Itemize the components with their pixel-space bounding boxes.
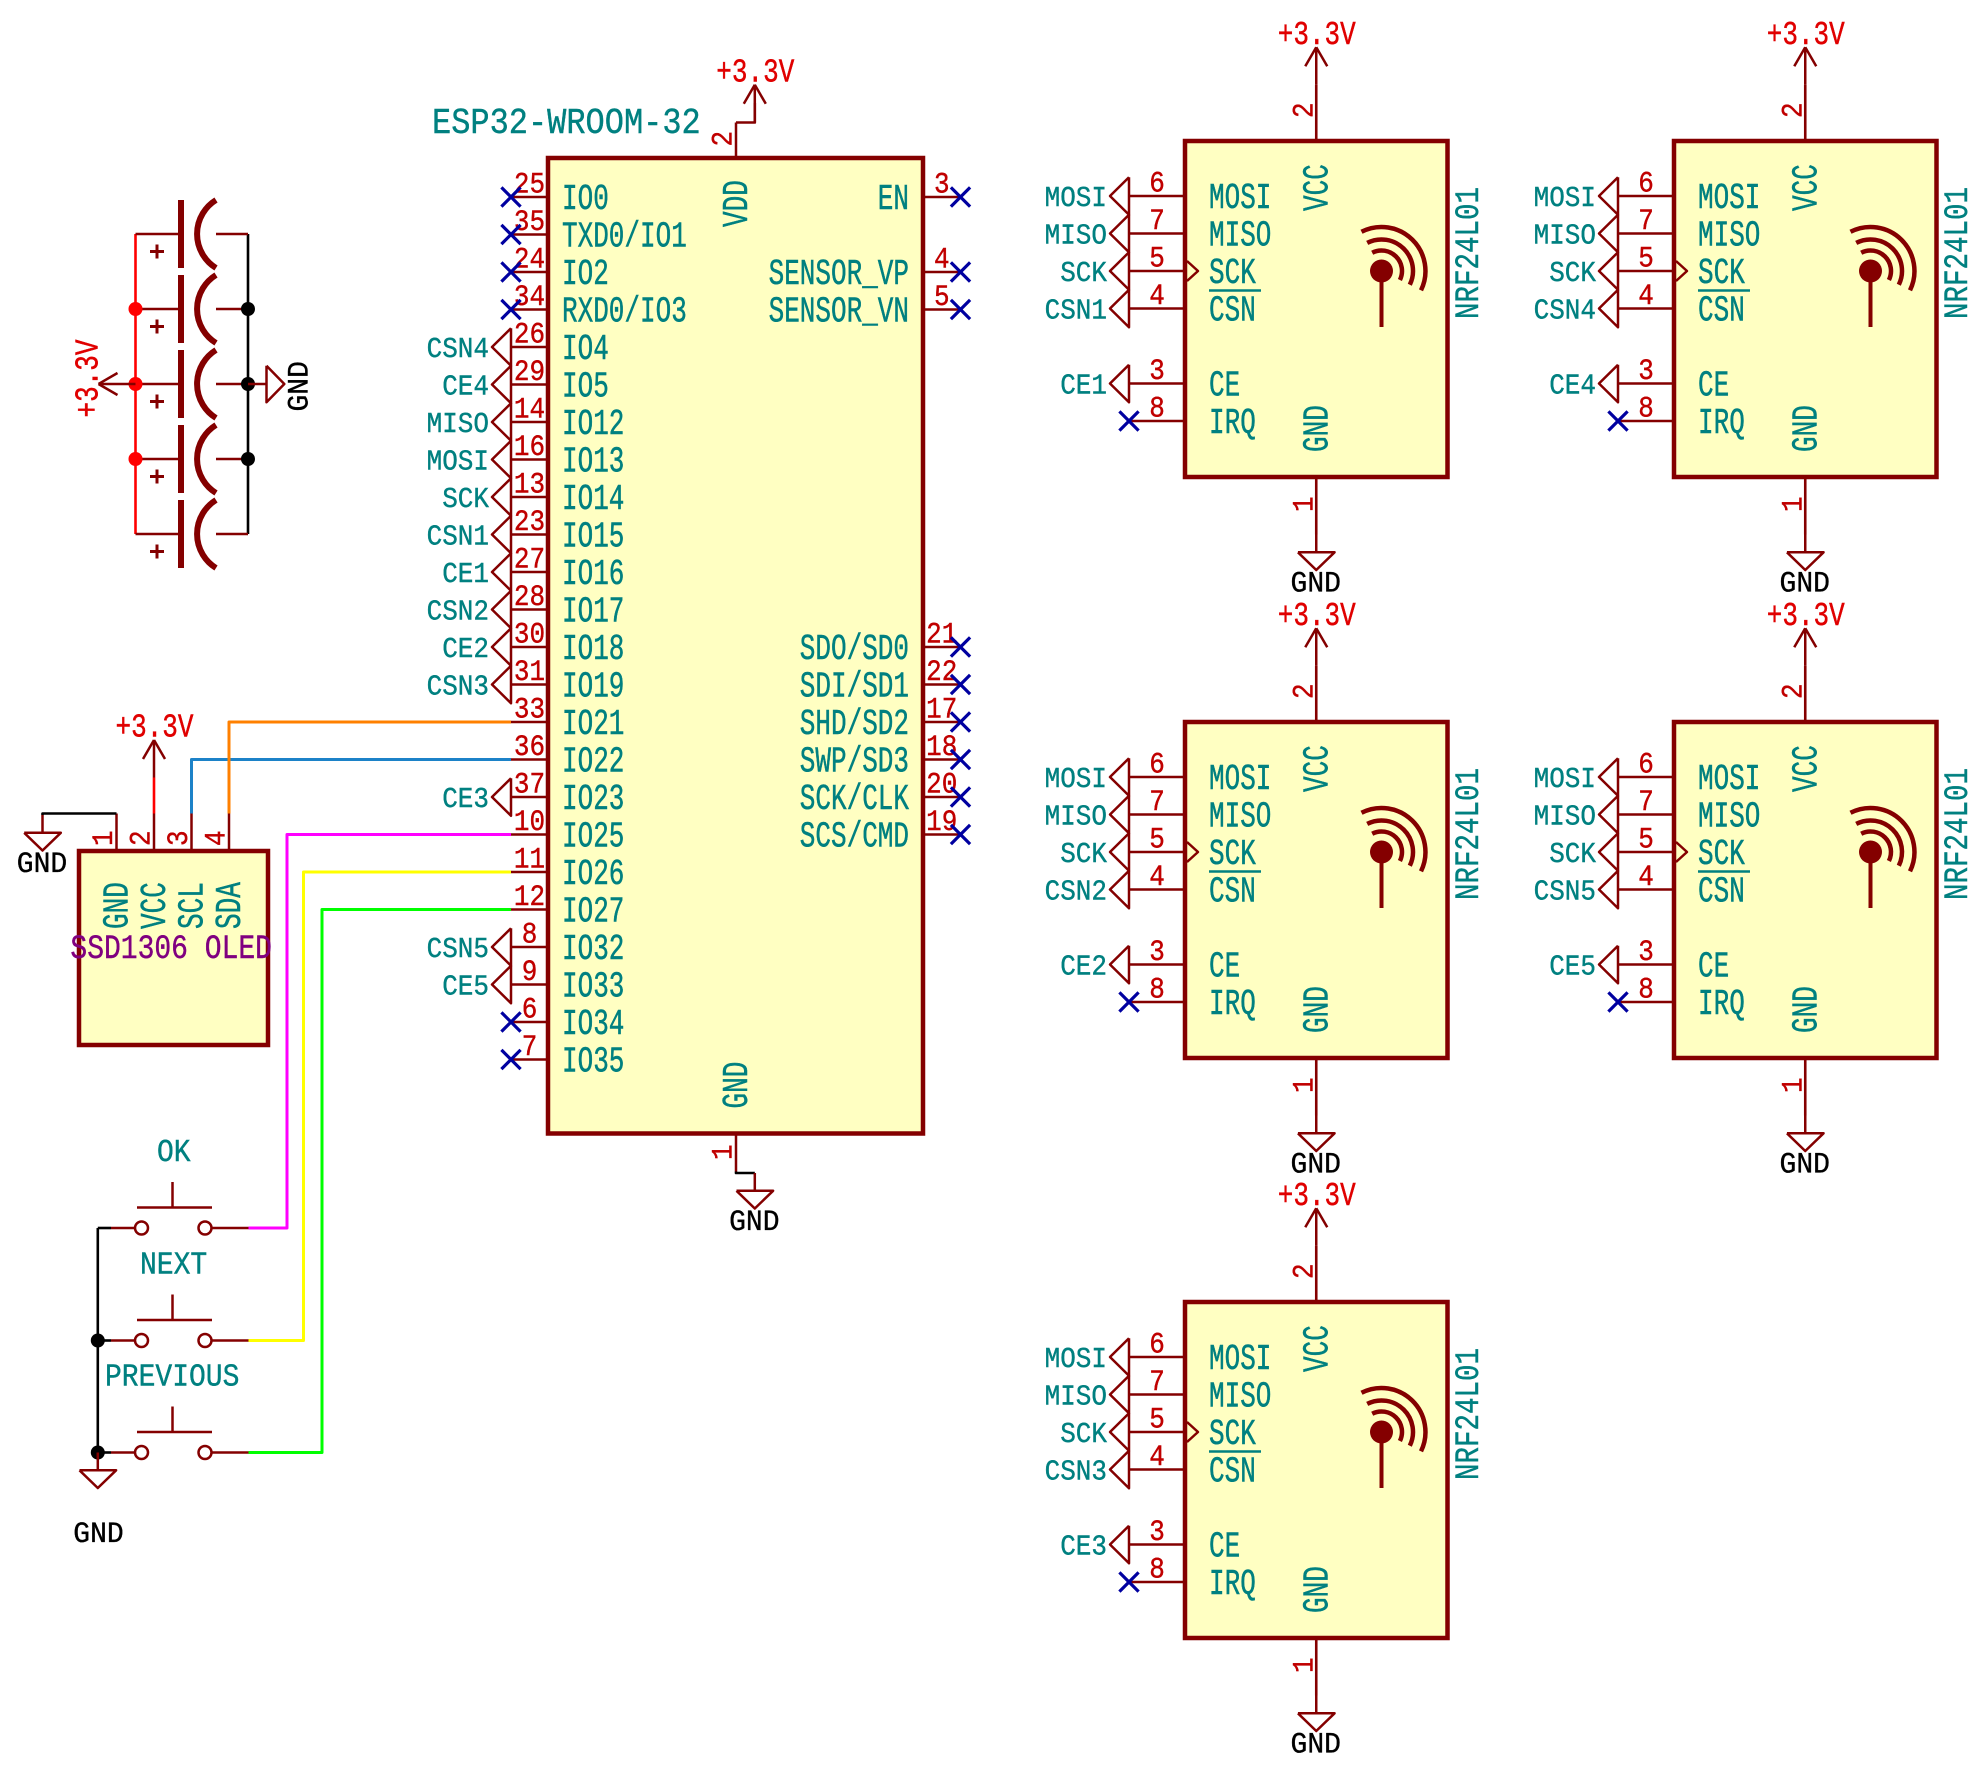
svg-text:IRQ: IRQ (1209, 985, 1256, 1025)
svg-text:MISO: MISO (427, 409, 489, 442)
svg-text:CSN: CSN (1209, 292, 1256, 332)
svg-text:GND: GND (99, 882, 139, 929)
svg-text:CE5: CE5 (442, 971, 489, 1004)
svg-text:29: 29 (514, 357, 545, 390)
svg-text:CSN3: CSN3 (1045, 1456, 1107, 1489)
svg-text:IO16: IO16 (562, 555, 624, 595)
svg-text:GND: GND (729, 1205, 779, 1239)
svg-text:33: 33 (514, 694, 545, 727)
svg-text:SCK: SCK (1698, 254, 1745, 294)
svg-text:SCK/CLK: SCK/CLK (800, 780, 909, 820)
svg-text:SENSOR_VN: SENSOR_VN (769, 293, 909, 333)
svg-text:14: 14 (514, 394, 545, 427)
svg-text:11: 11 (514, 844, 545, 877)
svg-text:7: 7 (1638, 206, 1654, 239)
svg-text:3: 3 (1149, 356, 1165, 389)
svg-text:GND: GND (1299, 986, 1339, 1033)
svg-text:CE5: CE5 (1549, 951, 1596, 984)
svg-text:2: 2 (1289, 1263, 1322, 1279)
svg-text:IO19: IO19 (562, 668, 624, 708)
svg-text:RXD0/IO3: RXD0/IO3 (562, 293, 687, 333)
svg-text:MOSI: MOSI (1534, 183, 1596, 216)
svg-text:27: 27 (514, 544, 545, 577)
svg-text:IO15: IO15 (562, 518, 624, 558)
svg-text:CE1: CE1 (1060, 370, 1107, 403)
svg-text:NEXT: NEXT (140, 1247, 207, 1283)
svg-text:26: 26 (514, 319, 545, 352)
svg-text:8: 8 (1149, 393, 1165, 426)
svg-text:+3.3V: +3.3V (116, 710, 194, 748)
svg-text:GND: GND (1291, 567, 1341, 601)
svg-text:CSN3: CSN3 (427, 671, 489, 704)
svg-text:IO12: IO12 (562, 405, 624, 445)
svg-text:SDO/SD0: SDO/SD0 (800, 630, 909, 670)
svg-text:VCC: VCC (1788, 164, 1828, 211)
svg-text:MOSI: MOSI (1045, 764, 1107, 797)
svg-text:IO33: IO33 (562, 968, 624, 1008)
svg-text:4: 4 (1638, 281, 1654, 314)
svg-text:IO18: IO18 (562, 630, 624, 670)
svg-text:MOSI: MOSI (1209, 179, 1271, 219)
svg-text:EN: EN (878, 180, 909, 220)
svg-text:CE: CE (1698, 948, 1729, 988)
svg-text:+3.3V: +3.3V (716, 54, 794, 92)
svg-text:7: 7 (522, 1032, 538, 1065)
svg-text:NRF24L01: NRF24L01 (1450, 187, 1489, 319)
svg-text:10: 10 (514, 807, 545, 840)
svg-text:8: 8 (1149, 974, 1165, 1007)
svg-text:CSN: CSN (1209, 873, 1256, 913)
svg-text:SENSOR_VP: SENSOR_VP (769, 255, 909, 295)
svg-text:13: 13 (514, 469, 545, 502)
svg-text:6: 6 (1149, 749, 1165, 782)
svg-text:MISO: MISO (1045, 801, 1107, 834)
svg-text:IRQ: IRQ (1698, 985, 1745, 1025)
svg-text:5: 5 (1638, 824, 1654, 857)
svg-text:23: 23 (514, 507, 545, 540)
svg-text:28: 28 (514, 582, 545, 615)
svg-text:8: 8 (1638, 974, 1654, 1007)
svg-text:GND: GND (1780, 1148, 1830, 1182)
svg-text:5: 5 (1149, 243, 1165, 276)
svg-text:CSN: CSN (1209, 1453, 1256, 1493)
svg-text:IO21: IO21 (562, 705, 624, 745)
svg-text:CSN: CSN (1698, 873, 1745, 913)
svg-text:CSN5: CSN5 (427, 934, 489, 967)
svg-text:IO35: IO35 (562, 1043, 624, 1083)
svg-text:PREVIOUS: PREVIOUS (105, 1359, 239, 1395)
svg-text:SHD/SD2: SHD/SD2 (800, 705, 909, 745)
svg-text:36: 36 (514, 732, 545, 765)
svg-text:8: 8 (1638, 393, 1654, 426)
svg-text:CE4: CE4 (1549, 370, 1596, 403)
svg-text:MISO: MISO (1045, 220, 1107, 253)
svg-text:31: 31 (514, 657, 545, 690)
svg-text:VCC: VCC (136, 882, 176, 929)
svg-text:IO34: IO34 (562, 1005, 624, 1045)
svg-text:12: 12 (514, 882, 545, 915)
svg-text:IO13: IO13 (562, 443, 624, 483)
svg-text:ESP32-WROOM-32: ESP32-WROOM-32 (432, 103, 701, 144)
svg-text:GND: GND (1299, 1566, 1339, 1613)
svg-text:GND: GND (1299, 405, 1339, 452)
svg-text:8: 8 (522, 919, 538, 952)
svg-text:SDI/SD1: SDI/SD1 (800, 668, 909, 708)
svg-text:CSN1: CSN1 (1045, 295, 1107, 328)
svg-text:IO23: IO23 (562, 780, 624, 820)
svg-text:GND: GND (1788, 986, 1828, 1033)
svg-text:IRQ: IRQ (1209, 1565, 1256, 1605)
svg-text:MISO: MISO (1209, 1378, 1271, 1418)
svg-text:GND: GND (283, 361, 317, 411)
svg-text:GND: GND (17, 847, 67, 881)
svg-text:CSN5: CSN5 (1534, 876, 1596, 909)
svg-text:CE4: CE4 (442, 371, 489, 404)
svg-text:4: 4 (934, 244, 950, 277)
svg-text:9: 9 (522, 957, 538, 990)
svg-text:2: 2 (1778, 683, 1811, 699)
svg-text:1: 1 (1778, 1077, 1811, 1093)
svg-text:2: 2 (708, 131, 741, 147)
svg-text:CE2: CE2 (442, 634, 489, 667)
svg-text:MOSI: MOSI (1698, 179, 1760, 219)
svg-text:VCC: VCC (1788, 745, 1828, 792)
svg-text:OK: OK (157, 1135, 191, 1171)
svg-text:5: 5 (1638, 243, 1654, 276)
svg-text:SCK: SCK (1698, 835, 1745, 875)
svg-text:37: 37 (514, 769, 545, 802)
svg-text:CSN1: CSN1 (427, 521, 489, 554)
svg-text:22: 22 (926, 657, 957, 690)
svg-text:4: 4 (1638, 862, 1654, 895)
svg-text:21: 21 (926, 619, 957, 652)
svg-text:CSN2: CSN2 (1045, 876, 1107, 909)
svg-text:SCK: SCK (1209, 835, 1256, 875)
svg-text:2: 2 (1289, 683, 1322, 699)
svg-text:7: 7 (1149, 206, 1165, 239)
svg-text:IO14: IO14 (562, 480, 624, 520)
svg-text:4: 4 (1149, 862, 1165, 895)
svg-text:19: 19 (926, 807, 957, 840)
svg-text:+3.3V: +3.3V (1278, 598, 1356, 636)
svg-text:SCK: SCK (1060, 1419, 1107, 1452)
svg-text:MOSI: MOSI (1698, 760, 1760, 800)
svg-text:SCK: SCK (1549, 839, 1596, 872)
svg-text:CE: CE (1698, 367, 1729, 407)
svg-text:CE3: CE3 (442, 784, 489, 817)
svg-text:CE1: CE1 (442, 559, 489, 592)
svg-text:6: 6 (1638, 749, 1654, 782)
svg-text:2: 2 (1289, 102, 1322, 118)
svg-text:IO17: IO17 (562, 593, 624, 633)
svg-text:IO26: IO26 (562, 855, 624, 895)
svg-text:MOSI: MOSI (427, 446, 489, 479)
svg-text:3: 3 (1149, 937, 1165, 970)
svg-text:GND: GND (1780, 567, 1830, 601)
svg-text:MISO: MISO (1209, 798, 1271, 838)
svg-text:2: 2 (126, 830, 159, 846)
svg-text:GND: GND (73, 1517, 123, 1551)
svg-text:6: 6 (1149, 1329, 1165, 1362)
svg-text:35: 35 (514, 207, 545, 240)
svg-text:3: 3 (1149, 1517, 1165, 1550)
svg-text:16: 16 (514, 432, 545, 465)
svg-text:MOSI: MOSI (1209, 760, 1271, 800)
svg-text:SCS/CMD: SCS/CMD (800, 818, 909, 858)
svg-text:3: 3 (1638, 937, 1654, 970)
svg-text:GND: GND (718, 1062, 758, 1109)
svg-text:1: 1 (89, 830, 122, 846)
svg-text:4: 4 (1149, 281, 1165, 314)
svg-text:+3.3V: +3.3V (1278, 1178, 1356, 1216)
svg-text:30: 30 (514, 619, 545, 652)
svg-text:3: 3 (1638, 356, 1654, 389)
svg-text:SCK: SCK (1209, 254, 1256, 294)
svg-text:GND: GND (1291, 1728, 1341, 1762)
svg-text:6: 6 (1149, 168, 1165, 201)
svg-text:CE: CE (1209, 1528, 1240, 1568)
svg-text:24: 24 (514, 244, 545, 277)
svg-text:34: 34 (514, 282, 545, 315)
svg-text:IO4: IO4 (562, 330, 609, 370)
svg-text:1: 1 (1289, 1077, 1322, 1093)
svg-text:MOSI: MOSI (1045, 183, 1107, 216)
svg-text:IO22: IO22 (562, 743, 624, 783)
svg-text:7: 7 (1149, 787, 1165, 820)
svg-text:MISO: MISO (1534, 801, 1596, 834)
svg-text:SCL: SCL (174, 882, 214, 929)
svg-text:MOSI: MOSI (1045, 1344, 1107, 1377)
svg-text:VDD: VDD (718, 180, 758, 227)
svg-text:IO27: IO27 (562, 893, 624, 933)
svg-text:18: 18 (926, 732, 957, 765)
svg-text:CE: CE (1209, 948, 1240, 988)
svg-text:MISO: MISO (1045, 1381, 1107, 1414)
svg-text:6: 6 (522, 994, 538, 1027)
svg-text:VCC: VCC (1299, 164, 1339, 211)
svg-text:+3.3V: +3.3V (1278, 17, 1356, 55)
svg-text:4: 4 (1149, 1442, 1165, 1475)
svg-text:CE3: CE3 (1060, 1531, 1107, 1564)
svg-text:VCC: VCC (1299, 1325, 1339, 1372)
svg-text:SCK: SCK (1060, 839, 1107, 872)
svg-text:MISO: MISO (1534, 220, 1596, 253)
svg-text:NRF24L01: NRF24L01 (1939, 187, 1977, 319)
svg-text:MISO: MISO (1698, 217, 1760, 257)
svg-text:IRQ: IRQ (1209, 404, 1256, 444)
svg-text:MISO: MISO (1209, 217, 1271, 257)
svg-text:7: 7 (1149, 1367, 1165, 1400)
svg-text:SDA: SDA (211, 882, 251, 929)
svg-text:2: 2 (1778, 102, 1811, 118)
svg-text:CE2: CE2 (1060, 951, 1107, 984)
svg-text:8: 8 (1149, 1554, 1165, 1587)
svg-text:NRF24L01: NRF24L01 (1450, 768, 1489, 900)
svg-text:SCK: SCK (1209, 1415, 1256, 1455)
svg-text:SCK: SCK (1060, 258, 1107, 291)
svg-text:GND: GND (1788, 405, 1828, 452)
svg-text:4: 4 (201, 830, 234, 846)
svg-text:IO32: IO32 (562, 930, 624, 970)
svg-text:IO5: IO5 (562, 368, 609, 408)
svg-text:CSN4: CSN4 (1534, 295, 1596, 328)
svg-text:NRF24L01: NRF24L01 (1939, 768, 1977, 900)
svg-text:MISO: MISO (1698, 798, 1760, 838)
svg-text:1: 1 (1289, 1657, 1322, 1673)
svg-text:+3.3V: +3.3V (1767, 598, 1845, 636)
svg-text:7: 7 (1638, 787, 1654, 820)
svg-text:3: 3 (934, 169, 950, 202)
svg-text:3: 3 (164, 830, 197, 846)
svg-text:+3.3V: +3.3V (71, 340, 109, 418)
svg-text:5: 5 (1149, 1404, 1165, 1437)
svg-text:+3.3V: +3.3V (1767, 17, 1845, 55)
svg-text:TXD0/IO1: TXD0/IO1 (562, 218, 687, 258)
svg-text:5: 5 (934, 282, 950, 315)
svg-text:6: 6 (1638, 168, 1654, 201)
svg-text:1: 1 (1289, 496, 1322, 512)
svg-text:SWP/SD3: SWP/SD3 (800, 743, 909, 783)
svg-text:25: 25 (514, 169, 545, 202)
svg-text:IO2: IO2 (562, 255, 609, 295)
svg-text:1: 1 (708, 1144, 741, 1160)
svg-text:NRF24L01: NRF24L01 (1450, 1348, 1489, 1480)
svg-text:IRQ: IRQ (1698, 404, 1745, 444)
svg-text:CSN2: CSN2 (427, 596, 489, 629)
svg-text:MOSI: MOSI (1209, 1340, 1271, 1380)
svg-text:20: 20 (926, 769, 957, 802)
svg-text:CE: CE (1209, 367, 1240, 407)
svg-text:CSN: CSN (1698, 292, 1745, 332)
svg-text:17: 17 (926, 694, 957, 727)
svg-text:GND: GND (1291, 1148, 1341, 1182)
svg-text:IO0: IO0 (562, 180, 609, 220)
svg-text:SSD1306 OLED: SSD1306 OLED (70, 931, 272, 969)
svg-text:5: 5 (1149, 824, 1165, 857)
svg-text:SCK: SCK (1549, 258, 1596, 291)
svg-text:CSN4: CSN4 (427, 334, 489, 367)
svg-text:MOSI: MOSI (1534, 764, 1596, 797)
svg-text:1: 1 (1778, 496, 1811, 512)
svg-text:IO25: IO25 (562, 818, 624, 858)
svg-text:SCK: SCK (442, 484, 489, 517)
svg-text:VCC: VCC (1299, 745, 1339, 792)
